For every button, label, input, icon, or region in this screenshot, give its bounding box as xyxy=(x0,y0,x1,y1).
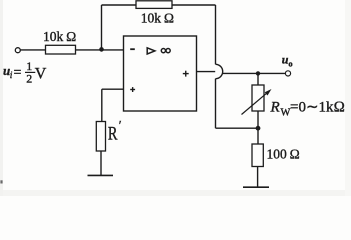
wire op-amp output xyxy=(197,71,216,73)
label ui = 1/2 V xyxy=(3,59,47,85)
svg-text:10k Ω: 10k Ω xyxy=(43,29,76,44)
svg-text:=0∼1kΩ: =0∼1kΩ xyxy=(290,100,345,116)
op-amp U1 box xyxy=(124,36,197,111)
resistor R2 10k feedback xyxy=(136,1,172,9)
wire noninverting input xyxy=(102,88,124,90)
ground under R' xyxy=(88,174,114,176)
node output junction dot xyxy=(256,71,260,75)
input terminal xyxy=(15,48,20,53)
svg-text:V: V xyxy=(35,66,47,83)
wire R' bottom to ground xyxy=(100,151,102,175)
wire hop over output xyxy=(216,64,223,78)
wire output to terminal xyxy=(223,72,286,74)
svg-text:2: 2 xyxy=(26,71,32,85)
wire right feedback vertical lower xyxy=(215,79,217,129)
wire top feedback from node A to output branch xyxy=(102,4,216,6)
wire down to R' xyxy=(101,89,103,121)
svg-text:W: W xyxy=(281,108,291,119)
wire output node down to RW xyxy=(257,73,259,85)
potentiometer RW arrow xyxy=(242,91,270,114)
op-amp infinity symbol xyxy=(161,49,170,53)
resistor R' box xyxy=(96,122,105,152)
node B junction dot xyxy=(256,126,261,131)
label RW = 0 ~ 1k ohm xyxy=(270,100,346,119)
wire feedback return horizontal xyxy=(216,127,259,129)
wire node B to 100 ohm top is same segment; wire 100 ohm bottom to ground xyxy=(257,167,259,187)
op-amp output plus sign xyxy=(183,71,189,77)
ground under 100 ohm xyxy=(243,186,269,188)
svg-text:=: = xyxy=(14,66,22,81)
wire input from terminal to inverting input xyxy=(20,49,123,51)
node A junction dot xyxy=(99,47,104,52)
potentiometer RW box xyxy=(252,85,264,111)
svg-text:R: R xyxy=(270,100,280,116)
svg-text:i: i xyxy=(10,71,13,81)
wire left feedback vertical xyxy=(101,5,103,49)
op-amp triangle gain symbol xyxy=(147,48,155,54)
svg-text:10k Ω: 10k Ω xyxy=(141,10,174,25)
wire RW bottom to node B xyxy=(257,111,259,144)
op-amp plus input sign xyxy=(130,87,135,92)
op-amp minus input sign xyxy=(130,48,135,50)
output terminal xyxy=(285,71,290,76)
resistor R1 10k input xyxy=(46,45,76,54)
svg-text:100 Ω: 100 Ω xyxy=(267,146,300,161)
resistor 100 ohm box xyxy=(252,144,263,167)
svg-text:R: R xyxy=(108,124,118,145)
label uo xyxy=(282,52,293,68)
svg-text:′: ′ xyxy=(119,118,122,133)
svg-text:o: o xyxy=(288,59,292,69)
wire right feedback vertical upper xyxy=(215,5,217,64)
